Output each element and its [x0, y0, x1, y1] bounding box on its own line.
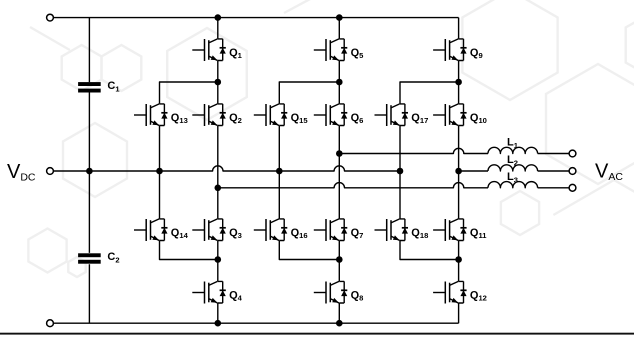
inductor L2: [488, 165, 538, 171]
transistor Q2 (IGBT with freewheel diode): [192, 104, 242, 126]
wire: clamp B mid link: [278, 126, 280, 219]
wire: clamp A bottom link: [160, 241, 218, 260]
node: clamp B bottom junction: [336, 256, 343, 263]
wire: clamp B bottom link: [279, 241, 339, 260]
node: leg B / bottom rail: [336, 320, 343, 327]
node: clamp A / neutral: [156, 168, 163, 175]
transistor Q14 (IGBT with freewheel diode): [134, 219, 189, 241]
terminal: V_DC mid input: [47, 168, 54, 175]
wire: clamp C mid link: [399, 126, 401, 219]
transistor Q7 (IGBT with freewheel diode): [314, 219, 364, 241]
node: clamp A top junction: [215, 79, 222, 86]
node: clamp B / neutral: [276, 168, 283, 175]
transistor Q18 (IGBT with freewheel diode): [375, 219, 429, 241]
transistor Q6 (IGBT with freewheel diode): [314, 104, 364, 126]
wire: phase A output line to L3 (hops over legs B and C): [218, 183, 488, 188]
node: capacitor midpoint: [86, 168, 93, 175]
transistor Q17 (IGBT with freewheel diode): [375, 104, 429, 126]
transistor Q3 (IGBT with freewheel diode): [192, 219, 242, 241]
transistor Q11 (IGBT with freewheel diode): [433, 219, 487, 241]
node: leg A / bottom rail: [215, 320, 222, 327]
wire: clamp C top link: [400, 82, 459, 104]
wire: capacitor string lead: [88, 18, 90, 324]
wire: clamp C bottom link: [400, 241, 459, 260]
wire: clamp B top link: [279, 82, 339, 104]
node: clamp A bottom junction: [215, 256, 222, 263]
node: leg B / top rail: [336, 14, 343, 21]
node: leg A / top rail: [215, 14, 222, 21]
terminal: DC- input: [47, 320, 54, 327]
node: clamp C top junction: [455, 79, 462, 86]
transistor Q4 (IGBT with freewheel diode): [192, 281, 242, 303]
transistor Q13 (IGBT with freewheel diode): [134, 104, 188, 126]
wire: leg B vertical segments: [338, 18, 340, 324]
wire: bottom DC- rail: [53, 322, 458, 324]
wire: top DC+ rail: [53, 17, 458, 19]
node: phase B tap: [336, 150, 343, 157]
wire: leg A vertical segments: [217, 18, 219, 324]
bottom separator rule: [0, 333, 634, 335]
transistor Q1 (IGBT with freewheel diode): [192, 39, 242, 61]
wire: phase B output line to L1 (hops over leg C): [339, 148, 488, 153]
node: clamp C / neutral: [397, 168, 404, 175]
transistor Q16 (IGBT with freewheel diode): [254, 219, 308, 241]
capacitor C1: [78, 80, 120, 94]
transistor Q5 (IGBT with freewheel diode): [314, 39, 364, 61]
inductor L3: [488, 182, 538, 188]
terminal: AC phase 1 output: [569, 150, 576, 157]
transistor Q8 (IGBT with freewheel diode): [314, 281, 364, 303]
terminal: AC phase 2 output: [569, 168, 576, 175]
node: phase A tap: [215, 185, 222, 192]
capacitor C2: [78, 251, 119, 265]
transistor Q15 (IGBT with freewheel diode): [254, 104, 309, 126]
wire: clamp A top link: [160, 82, 218, 104]
transistor Q9 (IGBT with freewheel diode): [433, 39, 483, 61]
terminal: DC+ input: [47, 14, 54, 21]
node: phase C tap: [455, 168, 462, 175]
transistor Q10 (IGBT with freewheel diode): [433, 104, 487, 126]
wire: neutral mid rail (hops over legs A and B): [53, 166, 400, 171]
wire: phase C output line to L2: [459, 170, 488, 172]
wire: clamp A mid link: [159, 126, 161, 219]
inductor L1: [488, 147, 538, 153]
node: clamp C bottom junction: [455, 256, 462, 263]
transistor Q12 (IGBT with freewheel diode): [433, 281, 487, 303]
terminal: AC phase 3 output: [569, 184, 576, 191]
wire: leg C vertical segments: [458, 18, 460, 324]
node: clamp B top junction: [336, 79, 343, 86]
